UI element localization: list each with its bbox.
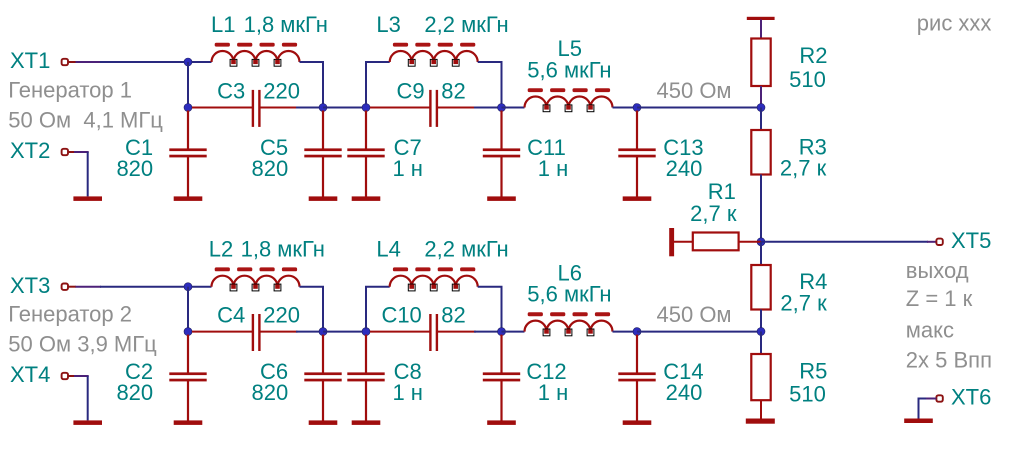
svg-text:2x 5 Впп: 2x 5 Впп [906, 348, 992, 373]
wire XT3 to node [100, 286, 212, 288]
svg-text:1 н: 1 н [392, 156, 423, 181]
ground XT2 [73, 196, 102, 201]
capacitor C2 [169, 335, 206, 421]
node 761,331.5 [757, 328, 765, 336]
svg-text:C10: C10 [381, 302, 421, 327]
svg-text:510: 510 [789, 67, 826, 92]
capacitor C11 [483, 111, 520, 197]
ground XT4 [73, 420, 102, 425]
node 323,331.6 [319, 328, 327, 336]
wire to series inductor [502, 107, 525, 109]
wire cell2 top right [478, 62, 502, 105]
svg-text:выход: выход [906, 258, 969, 283]
node 366,107.5 [362, 104, 370, 112]
svg-text:макс: макс [906, 318, 954, 343]
node 366,331.6 [362, 328, 370, 336]
node main 188,107.5 [184, 104, 192, 112]
svg-text:2,2 мкГн: 2,2 мкГн [424, 237, 508, 262]
wire 450 Ом segment [637, 331, 761, 333]
svg-text:820: 820 [252, 156, 289, 181]
wire input drop [187, 287, 189, 332]
capacitor C12 [483, 335, 520, 421]
node input top 188,286.7 [184, 283, 192, 291]
svg-text:R2: R2 [799, 43, 827, 68]
svg-text:XT4: XT4 [10, 362, 50, 387]
resistor R1 [693, 233, 739, 251]
capacitor C1 [169, 111, 206, 197]
node input top 188,62 [184, 58, 192, 66]
svg-text:XT2: XT2 [10, 138, 50, 163]
svg-text:240: 240 [666, 380, 703, 405]
wire node to R4 [760, 242, 762, 265]
capacitor C9 [370, 90, 476, 127]
wire to series inductor [502, 331, 525, 333]
capacitor C10 [370, 314, 476, 351]
svg-text:Генератор 2: Генератор 2 [8, 302, 132, 327]
ground C5 [309, 196, 338, 201]
svg-text:L2: L2 [209, 237, 233, 262]
svg-text:820: 820 [116, 156, 153, 181]
svg-text:1,8 мкГн: 1,8 мкГн [241, 237, 325, 262]
resistor R5 [751, 354, 770, 400]
capacitor C14 [618, 335, 655, 421]
svg-text:2,7 к: 2,7 к [780, 291, 827, 316]
wire XT4 drop [87, 376, 89, 420]
svg-text:1 н: 1 н [392, 380, 423, 405]
terminal XT2 [62, 149, 68, 155]
ground C2 [174, 420, 203, 425]
svg-text:R5: R5 [799, 358, 827, 383]
node 637,107.5 [633, 104, 641, 112]
svg-text:450 Ом: 450 Ом [657, 78, 732, 103]
svg-text:L4: L4 [376, 237, 400, 262]
svg-text:240: 240 [666, 156, 703, 181]
ground R1 [669, 228, 674, 256]
svg-text:5,6 мкГн: 5,6 мкГн [527, 57, 611, 82]
wire node to R5 [760, 332, 762, 355]
svg-text:XT5: XT5 [951, 228, 991, 253]
node main 188,331.6 [184, 328, 192, 336]
wire cap out [296, 331, 323, 333]
wire R5 to ground [760, 400, 762, 419]
node 761,241.8 [757, 238, 765, 246]
wire input drop [187, 62, 189, 108]
resistor R2 [751, 39, 770, 87]
terminal XT6 [936, 395, 942, 401]
wire XT6 to ground [919, 399, 927, 419]
svg-text:L1: L1 [211, 12, 235, 37]
wire XT1 lead [68, 61, 76, 63]
svg-text:510: 510 [789, 382, 826, 407]
wire gnd to R1 [674, 241, 693, 243]
wire node to R3 [760, 108, 762, 131]
wire R2 to node [760, 86, 762, 108]
wire XT1 lead blend [76, 61, 102, 63]
svg-text:XT3: XT3 [10, 273, 50, 298]
terminal XT4 [62, 373, 68, 379]
svg-text:1 н: 1 н [538, 156, 569, 181]
capacitor C7 [347, 111, 384, 197]
wire cell2 left up [366, 62, 390, 105]
svg-text:C4: C4 [217, 302, 245, 327]
node 761,107.5 [757, 104, 765, 112]
wire XT4 blend [74, 375, 89, 377]
svg-text:5,6 мкГн: 5,6 мкГн [527, 282, 611, 307]
wire XT3 lead blend [76, 286, 102, 288]
wire XT2 drop [87, 152, 89, 196]
capacitor C6 [304, 335, 341, 421]
svg-text:220: 220 [263, 302, 300, 327]
ground C6 [309, 420, 338, 425]
svg-text:2,7 к: 2,7 к [780, 156, 827, 181]
terminal XT3 [62, 284, 68, 290]
svg-text:C9: C9 [396, 78, 424, 103]
svg-text:2,7 к: 2,7 к [690, 201, 737, 226]
svg-text:Z = 1 к: Z = 1 к [906, 286, 973, 311]
wire rail to R2 [760, 20, 762, 39]
inductor L4 [390, 267, 478, 291]
power rail bar [747, 17, 775, 20]
wire XT5 lead [927, 241, 936, 243]
wire cell2 left up [366, 287, 390, 329]
node 637,331.6 [633, 328, 641, 336]
ground XT6 [904, 419, 933, 424]
wire XT3 lead [68, 286, 76, 288]
svg-text:820: 820 [116, 380, 153, 405]
inductor L2 [212, 267, 300, 291]
capacitor C8 [347, 335, 384, 421]
resistor R3 [751, 130, 770, 175]
wire node to XT5 [761, 241, 928, 243]
svg-text:1,8 мкГн: 1,8 мкГн [244, 12, 328, 37]
inductor L1 [212, 43, 300, 67]
capacitor C13 [618, 111, 655, 197]
wire XT2 [68, 151, 74, 153]
wire cap out [296, 107, 323, 109]
terminal XT1 [62, 59, 68, 65]
ground C7 [352, 196, 381, 201]
wire XT4 [68, 375, 74, 377]
wire cell1 top right [300, 62, 324, 105]
ground chain [746, 419, 775, 424]
terminal XT5 [936, 239, 942, 245]
svg-text:220: 220 [263, 78, 300, 103]
wire XT1 to node [100, 61, 212, 63]
capacitor C3 [192, 90, 298, 127]
ground C8 [352, 420, 381, 425]
capacitor C4 [192, 314, 298, 351]
resistor R4 [751, 265, 770, 310]
node 501.5,107.5 [498, 104, 506, 112]
svg-text:XT6: XT6 [951, 384, 991, 409]
svg-text:XT1: XT1 [10, 48, 50, 73]
svg-text:450 Ом: 450 Ом [657, 302, 732, 327]
svg-text:50 Ом 3,9 МГц: 50 Ом 3,9 МГц [8, 332, 157, 357]
svg-text:рис ххх: рис ххх [917, 11, 992, 36]
wire R3 to node [760, 175, 762, 242]
inductor L3 [390, 43, 478, 67]
svg-text:82: 82 [441, 78, 465, 103]
ground C14 [623, 420, 652, 425]
wire cap2 out [474, 107, 502, 109]
wire R4 to node [760, 310, 762, 332]
wire XT6 lead [925, 398, 936, 400]
inductor L6 [525, 312, 613, 336]
wire link cells [323, 331, 366, 333]
wire series inductor out [613, 107, 638, 109]
node 323,107.5 [319, 104, 327, 112]
svg-text:820: 820 [252, 380, 289, 405]
wire cap2 out [474, 331, 502, 333]
svg-text:82: 82 [441, 302, 465, 327]
capacitor C5 [304, 111, 341, 197]
wire cell1 top right [300, 287, 324, 329]
node 501.5,331.6 [498, 328, 506, 336]
wire link cells [323, 107, 366, 109]
wire series inductor out [613, 331, 638, 333]
wire XT2 blend [74, 151, 89, 153]
inductor L5 [525, 88, 613, 112]
svg-text:C3: C3 [217, 78, 245, 103]
svg-text:50 Ом 4,1 МГц: 50 Ом 4,1 МГц [8, 108, 163, 133]
wire cell2 top right [478, 287, 502, 329]
ground C13 [623, 196, 652, 201]
svg-text:Генератор 1: Генератор 1 [8, 78, 132, 103]
ground C12 [487, 420, 516, 425]
svg-text:1 н: 1 н [538, 380, 569, 405]
svg-text:L3: L3 [376, 12, 400, 37]
wire R1 to node [739, 241, 762, 243]
ground C1 [174, 196, 203, 201]
svg-text:2,2 мкГн: 2,2 мкГн [424, 12, 508, 37]
wire 450 Ом segment [637, 107, 761, 109]
ground C11 [487, 196, 516, 201]
